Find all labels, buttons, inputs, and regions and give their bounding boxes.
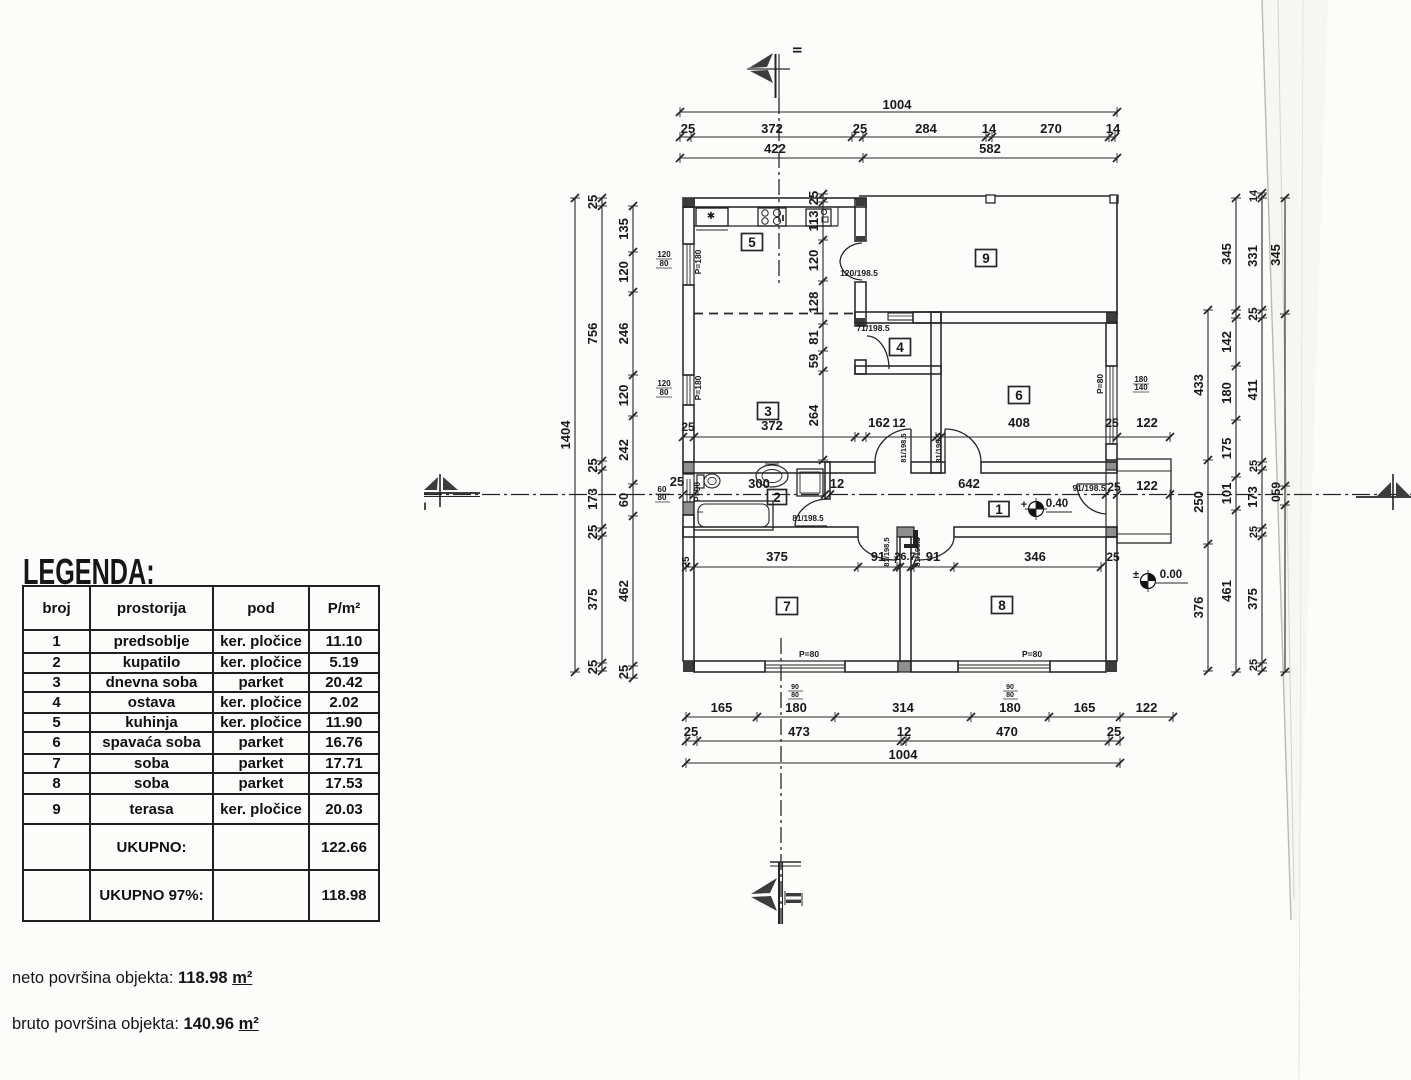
svg-text:25: 25 bbox=[670, 474, 684, 489]
svg-text:0.40: 0.40 bbox=[1046, 498, 1068, 510]
svg-text:P=80: P=80 bbox=[1022, 649, 1042, 659]
door label 81/198.5 bath bbox=[792, 514, 824, 523]
svg-text:P=180: P=180 bbox=[693, 375, 703, 400]
wall corridor bottom run1 bbox=[683, 527, 858, 537]
svg-text:P=180: P=180 bbox=[693, 249, 703, 274]
window marker symbol bottom right bbox=[1003, 684, 1018, 699]
svg-text:270: 270 bbox=[1040, 121, 1062, 136]
corner column bottom-left bbox=[683, 661, 695, 672]
wall room4 top / room6 top row bbox=[855, 312, 941, 323]
terrace top column mark 2 bbox=[1110, 195, 1118, 203]
svg-text:375: 375 bbox=[1245, 588, 1260, 610]
door label 81/198.5 room7 bbox=[882, 537, 891, 566]
kitchen counter bbox=[694, 207, 838, 226]
svg-text:120: 120 bbox=[657, 250, 671, 259]
window W1 left (120/80) bbox=[683, 244, 694, 285]
svg-text:25: 25 bbox=[1106, 550, 1120, 564]
svg-text:91/198.5: 91/198.5 bbox=[1072, 483, 1105, 493]
svg-text:25: 25 bbox=[585, 458, 600, 472]
dimension interior y437 labels bbox=[681, 415, 1158, 434]
svg-text:60: 60 bbox=[616, 493, 631, 507]
kitchen sink unit bbox=[696, 208, 728, 230]
svg-text:059: 059 bbox=[1269, 482, 1283, 502]
svg-text:175: 175 bbox=[1219, 438, 1234, 460]
dimension right chain R3 labels bbox=[1245, 189, 1260, 671]
window W6 right (180/140) bbox=[1106, 366, 1117, 444]
svg-text:582: 582 bbox=[979, 141, 1001, 156]
dimension bottom row2 bbox=[682, 724, 1124, 746]
svg-text:25: 25 bbox=[1248, 526, 1260, 538]
svg-text:462: 462 bbox=[616, 580, 631, 602]
svg-text:346: 346 bbox=[1024, 549, 1046, 564]
svg-text:✱: ✱ bbox=[707, 211, 715, 222]
window W3 bath left (60) bbox=[683, 474, 694, 502]
svg-text:12: 12 bbox=[897, 724, 911, 739]
svg-text:±: ± bbox=[1133, 569, 1139, 581]
svg-text:P=80: P=80 bbox=[799, 649, 819, 659]
svg-text:1404: 1404 bbox=[558, 420, 573, 450]
door kitchen-terrace (120/198.5) bbox=[840, 243, 862, 280]
svg-text:180: 180 bbox=[785, 700, 807, 715]
label 25 under porch bbox=[1106, 550, 1120, 564]
section line vertical bottom bbox=[780, 638, 782, 924]
wall top (kitchen) bbox=[683, 198, 866, 207]
wall terrace top (thin) bbox=[859, 195, 1118, 197]
svg-text:7: 7 bbox=[783, 599, 791, 614]
svg-text:284: 284 bbox=[915, 121, 937, 136]
svg-text:25: 25 bbox=[681, 420, 695, 434]
svg-text:25: 25 bbox=[681, 556, 692, 568]
svg-text:3: 3 bbox=[764, 404, 772, 419]
wall right bottom segment bbox=[1106, 537, 1117, 661]
window room4-terrace bbox=[888, 313, 913, 320]
wall divider rooms 7-8 bbox=[900, 537, 911, 661]
dimension right chain R4 bbox=[1280, 194, 1290, 676]
svg-text:180: 180 bbox=[999, 700, 1021, 715]
svg-text:1004: 1004 bbox=[889, 747, 919, 762]
svg-text:25: 25 bbox=[1107, 724, 1121, 739]
svg-text:25: 25 bbox=[585, 660, 600, 674]
section marker top (II) bbox=[747, 47, 804, 98]
dimension interior y567 bbox=[682, 562, 1105, 572]
svg-text:14: 14 bbox=[1106, 121, 1121, 136]
door room4 (71/198.5) bbox=[867, 336, 889, 369]
room label 3 bbox=[758, 403, 779, 420]
dimension bottom 12 label bbox=[897, 724, 911, 739]
svg-text:1004: 1004 bbox=[883, 97, 913, 112]
svg-text:642: 642 bbox=[958, 476, 980, 491]
svg-text:80: 80 bbox=[791, 692, 799, 699]
level mark +0.40 bbox=[1021, 498, 1072, 520]
dimension bottom row1 bbox=[682, 700, 1177, 722]
svg-text:59: 59 bbox=[806, 354, 821, 368]
svg-text:8: 8 bbox=[998, 598, 1006, 613]
entrance door opening right wall bbox=[1106, 470, 1117, 527]
room label 4 bbox=[890, 339, 911, 356]
wall room4 bottom bbox=[855, 366, 941, 374]
svg-text:81/198.5: 81/198.5 bbox=[899, 433, 908, 462]
room label 1 bbox=[989, 502, 1009, 518]
svg-text:25: 25 bbox=[585, 195, 600, 209]
svg-text:25: 25 bbox=[585, 525, 600, 539]
dimension right chain R4 labels bbox=[1268, 244, 1283, 502]
scan fold diagonal line bbox=[1262, 0, 1294, 920]
entrance porch slab bbox=[1117, 459, 1171, 543]
svg-text:II: II bbox=[790, 47, 804, 54]
dimension left chain2 bbox=[585, 194, 607, 675]
svg-text:25: 25 bbox=[684, 724, 698, 739]
window label P=80 bottom right bbox=[1022, 649, 1042, 659]
svg-text:408: 408 bbox=[1008, 415, 1030, 430]
svg-text:122: 122 bbox=[1136, 478, 1158, 493]
wall kitchen right upper bbox=[855, 199, 866, 241]
note neto area bbox=[12, 969, 252, 988]
wall pier right below entrance bbox=[1106, 527, 1117, 537]
room label 6 bbox=[1009, 387, 1030, 404]
dimension top row3 bbox=[676, 141, 1121, 163]
svg-text:128: 128 bbox=[806, 292, 821, 314]
svg-text:120: 120 bbox=[616, 385, 631, 407]
section line horizontal bbox=[424, 494, 1411, 496]
svg-text:91: 91 bbox=[926, 549, 940, 564]
dimension corridor labels on section line bbox=[670, 474, 1174, 500]
door room8 from corridor (81/198.5) bbox=[918, 537, 954, 560]
door label 120/198.5 bbox=[840, 268, 878, 278]
wall bath-corridor divider bbox=[825, 462, 830, 499]
svg-text:P=80: P=80 bbox=[1095, 374, 1105, 394]
dimension right chain R1 bbox=[1191, 306, 1213, 675]
door label 71/198.5 bbox=[856, 323, 889, 333]
wall corridor top run3 bbox=[981, 462, 1117, 473]
room label 8 bbox=[992, 597, 1013, 614]
svg-text:12: 12 bbox=[830, 476, 844, 491]
svg-text:314: 314 bbox=[892, 700, 914, 715]
kitchen sink 2 bbox=[806, 209, 831, 226]
svg-text:120: 120 bbox=[806, 250, 821, 272]
wall right block at room6 top bbox=[1106, 312, 1117, 323]
washing machine bbox=[797, 469, 823, 496]
svg-text:375: 375 bbox=[766, 549, 788, 564]
dimension top row2 bbox=[676, 121, 1119, 142]
window W4 bottom (P=80) bbox=[765, 661, 845, 672]
corner column bottom-right bbox=[1106, 661, 1117, 672]
svg-text:4: 4 bbox=[896, 340, 904, 355]
wall pier left at corridor bbox=[683, 462, 694, 474]
svg-text:264: 264 bbox=[806, 404, 821, 426]
wall pier right above entrance bbox=[1106, 460, 1117, 470]
window spec left W1 bbox=[656, 249, 703, 274]
svg-text:135: 135 bbox=[616, 218, 631, 240]
svg-text:470: 470 bbox=[996, 724, 1018, 739]
door bathroom (81/198.5) bbox=[795, 499, 827, 526]
wall right segment above window bbox=[1106, 323, 1117, 366]
svg-text:473: 473 bbox=[788, 724, 810, 739]
svg-text:122: 122 bbox=[1136, 415, 1158, 430]
kitchen stove bbox=[758, 208, 786, 226]
svg-text:376: 376 bbox=[1191, 597, 1206, 619]
svg-text:25: 25 bbox=[853, 121, 867, 136]
dimension interior y437 bbox=[679, 432, 1174, 442]
window spec left W2 bbox=[656, 375, 703, 400]
level mark 0.00 bbox=[1133, 569, 1188, 592]
svg-text:162: 162 bbox=[868, 415, 890, 430]
svg-text:81/198.5: 81/198.5 bbox=[792, 514, 824, 523]
dimension top row2 labels bbox=[761, 121, 1121, 136]
wall corridor top run1 bbox=[683, 462, 875, 473]
door room3 from corridor (81/198.5) bbox=[875, 429, 911, 462]
svg-text:81/198.5: 81/198.5 bbox=[882, 537, 891, 566]
svg-text:14: 14 bbox=[982, 121, 997, 136]
svg-text:433: 433 bbox=[1191, 374, 1206, 396]
svg-text:165: 165 bbox=[1074, 700, 1096, 715]
wall terrace right (thin) bbox=[1116, 196, 1118, 315]
svg-text:345: 345 bbox=[1219, 243, 1234, 265]
door entrance (91/198.5) bbox=[1077, 484, 1108, 514]
terrace top column mark 1 bbox=[986, 195, 995, 203]
wall left middle bbox=[683, 285, 694, 375]
svg-text:25: 25 bbox=[1248, 659, 1260, 671]
toilet bbox=[697, 474, 720, 488]
section marker right bbox=[1356, 474, 1411, 510]
svg-text:113: 113 bbox=[806, 211, 821, 232]
svg-text:25: 25 bbox=[1107, 480, 1121, 494]
svg-text:9: 9 bbox=[982, 251, 990, 266]
svg-text:80: 80 bbox=[660, 259, 669, 268]
svg-text:2: 2 bbox=[773, 490, 781, 505]
wall right segment below window bbox=[1106, 444, 1117, 460]
bathtub bbox=[694, 501, 773, 530]
svg-text:81/198.5: 81/198.5 bbox=[934, 433, 943, 462]
wall bottom segment 2 bbox=[845, 661, 898, 672]
wall kitchen right lower bbox=[855, 282, 866, 326]
svg-text:120: 120 bbox=[616, 261, 631, 283]
svg-text:I: I bbox=[423, 501, 426, 513]
wall left upper bbox=[683, 207, 694, 244]
svg-text:372: 372 bbox=[761, 418, 783, 433]
door room7 from corridor (81/198.5) bbox=[858, 537, 897, 560]
note bruto area bbox=[12, 1015, 259, 1034]
window spec left bath P bbox=[692, 482, 702, 502]
svg-text:411: 411 bbox=[1245, 380, 1260, 401]
dimension right chain R2 bbox=[1219, 194, 1241, 676]
legend table bbox=[22, 585, 380, 922]
svg-text:P=90: P=90 bbox=[692, 482, 702, 502]
window spec right wall bbox=[1095, 374, 1149, 394]
wall pier bottom center bbox=[898, 661, 911, 672]
section marker left (I) bbox=[423, 474, 480, 513]
wall corridor top run2 bbox=[911, 462, 945, 473]
dimension interior kitchen chain bbox=[806, 190, 828, 464]
svg-text:142: 142 bbox=[1219, 331, 1234, 353]
svg-text:173: 173 bbox=[1245, 486, 1260, 508]
wall bottom segment 3 bbox=[911, 661, 958, 672]
svg-text:173: 173 bbox=[585, 488, 600, 510]
dimension left 1404 bbox=[558, 194, 580, 676]
svg-text:461: 461 bbox=[1219, 580, 1234, 602]
door label 81/198.5 room8 bbox=[913, 537, 922, 566]
wall room4 right / room6 left bbox=[931, 312, 941, 473]
wall bottom segment 4 bbox=[1050, 661, 1106, 672]
svg-text:80: 80 bbox=[660, 388, 669, 397]
dimension interior y567 labels bbox=[681, 549, 1046, 568]
svg-text:12: 12 bbox=[892, 416, 906, 430]
room label 5 bbox=[742, 234, 763, 251]
dimension top 1004 bbox=[676, 97, 1121, 117]
svg-text:6: 6 bbox=[1015, 388, 1023, 403]
tiny window spec left bath bbox=[655, 485, 670, 502]
svg-text:422: 422 bbox=[764, 141, 786, 156]
svg-text:246: 246 bbox=[616, 323, 631, 345]
svg-text:165: 165 bbox=[711, 700, 733, 715]
svg-text:180: 180 bbox=[1219, 382, 1234, 404]
svg-text:756: 756 bbox=[585, 323, 600, 345]
window W2 left (120/80) bbox=[683, 375, 694, 405]
svg-text:90: 90 bbox=[791, 684, 799, 691]
svg-text:331: 331 bbox=[1245, 245, 1260, 267]
section line vertical top bbox=[778, 98, 780, 283]
svg-text:242: 242 bbox=[616, 439, 631, 461]
svg-text:250: 250 bbox=[1191, 491, 1206, 513]
svg-text:25: 25 bbox=[806, 191, 821, 205]
scan fold shading top right bbox=[1262, 0, 1328, 920]
svg-text:1: 1 bbox=[995, 502, 1003, 517]
wall room6 top bbox=[913, 312, 1117, 323]
wall room4 left lower bbox=[855, 360, 866, 374]
svg-text:71/198.5: 71/198.5 bbox=[856, 323, 889, 333]
svg-text:300: 300 bbox=[748, 476, 770, 491]
section marker bottom (II) bbox=[751, 862, 802, 924]
svg-text:5: 5 bbox=[748, 235, 756, 250]
svg-text:90: 90 bbox=[1006, 684, 1014, 691]
svg-text:375: 375 bbox=[585, 589, 600, 611]
svg-text:372: 372 bbox=[761, 121, 783, 136]
dimension right porch 122 y488 bbox=[0, 0, 1, 1]
wall pier left below bath window bbox=[683, 502, 694, 515]
svg-text:25: 25 bbox=[1246, 307, 1260, 321]
svg-text:120/198.5: 120/198.5 bbox=[840, 268, 878, 278]
svg-text:80: 80 bbox=[1006, 692, 1014, 699]
svg-text:0.00: 0.00 bbox=[1160, 569, 1182, 581]
scan fold faint vertical bbox=[1299, 0, 1303, 1080]
pillar between doors 7/8 bbox=[897, 527, 918, 548]
door label 81/198.5 room6 bbox=[934, 433, 943, 462]
svg-text:81: 81 bbox=[806, 330, 821, 344]
legend title bbox=[23, 551, 155, 593]
svg-text:81/198.5: 81/198.5 bbox=[913, 537, 922, 566]
svg-text:120: 120 bbox=[657, 379, 671, 388]
svg-text:25: 25 bbox=[1248, 460, 1260, 472]
svg-text:25: 25 bbox=[1105, 416, 1119, 430]
dashed line kitchen-living bbox=[694, 313, 855, 315]
door room6 from corridor (81/198.5) bbox=[945, 429, 981, 462]
svg-text:14: 14 bbox=[1248, 189, 1260, 202]
window W5 bottom (P=80) bbox=[958, 661, 1050, 672]
window label P=80 bottom left bbox=[799, 649, 819, 659]
corner column top-left bbox=[683, 198, 695, 208]
room label 7 bbox=[777, 598, 798, 615]
door label 81/198.5 room3 bbox=[899, 433, 908, 462]
dimension right chain R3 bbox=[1257, 189, 1267, 675]
wall left lower bbox=[683, 405, 694, 462]
room label 2 bbox=[768, 490, 787, 506]
washbasin bbox=[756, 464, 788, 487]
room label 9 bbox=[976, 250, 997, 267]
svg-text:25: 25 bbox=[681, 121, 695, 136]
wall left bottom segment bbox=[683, 515, 694, 661]
dimension bottom 1004 bbox=[682, 747, 1124, 768]
svg-text:345: 345 bbox=[1268, 244, 1283, 266]
window marker symbol bottom left bbox=[788, 684, 803, 699]
wall corridor bottom run2 bbox=[954, 527, 1117, 537]
svg-text:122: 122 bbox=[1136, 700, 1158, 715]
dimension left chain3 bbox=[616, 202, 638, 682]
wall bottom segment 1 bbox=[694, 661, 765, 672]
svg-text:101: 101 bbox=[1219, 483, 1234, 505]
svg-text:25: 25 bbox=[616, 665, 631, 679]
